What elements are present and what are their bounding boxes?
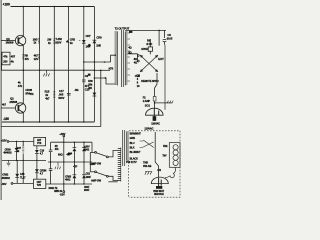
svg-text:4002: 4002 — [65, 179, 71, 182]
wire +15 bus — [9, 140, 34, 142]
wire vertical col4 x69 — [67, 7, 69, 123]
svg-text:4N4002: 4N4002 — [2, 177, 11, 180]
cap C2 left — [49, 162, 53, 184]
resistor R2 on col2 — [38, 39, 40, 44]
wire C8 branch down — [164, 45, 166, 110]
svg-text:CR08: CR08 — [25, 88, 32, 92]
wire bus y62 — [84, 61, 111, 63]
svg-text:4k7: 4k7 — [45, 96, 50, 100]
ground at bus — [43, 70, 49, 76]
wire common return y126.5 — [2, 126, 101, 128]
T1 lead color labels — [130, 133, 142, 161]
capacitor C17 labels between col4 col5 — [58, 89, 64, 100]
svg-text:REMOTE SPKR: REMOTE SPKR — [141, 80, 159, 83]
svg-text:900F: 900F — [84, 189, 90, 192]
svg-text:120VAC: 120VAC — [151, 123, 160, 126]
diode CR8 on col6 — [93, 40, 97, 43]
-15V terminal — [63, 142, 65, 190]
svg-text:7V6: 7V6 — [37, 142, 42, 145]
interlock switch blades — [143, 140, 154, 148]
diode CR7 on col5 — [82, 40, 86, 43]
capacitor C8 — [163, 30, 167, 44]
wire Q1 base — [2, 40, 16, 42]
diode CR62 — [15, 174, 19, 177]
cord coil to terminal block — [165, 167, 175, 177]
wire input hook left — [1, 63, 3, 70]
resistor text col2 lower — [18, 81, 23, 88]
T1 primary winding left — [120, 148, 122, 182]
svg-text:+160: +160 — [3, 3, 10, 7]
wire bus y78 — [94, 78, 116, 84]
svg-text:AMP SW: AMP SW — [91, 178, 102, 182]
ground mid — [55, 162, 61, 169]
svg-text:T2 OUTPUT: T2 OUTPUT — [115, 26, 130, 30]
T2 secondary tap stubs — [128, 33, 131, 81]
diode CR5 on col4 — [66, 40, 69, 42]
switch S1 (amp sw upper) — [90, 151, 94, 153]
svg-text:4002: 4002 — [84, 149, 90, 152]
svg-text:BLACK: BLACK — [130, 157, 139, 160]
svg-text:47k: 47k — [18, 84, 23, 88]
secondary tap labels — [136, 75, 140, 88]
svg-text:BLU: BLU — [130, 142, 135, 145]
verticals tier2 — [74, 162, 84, 175]
svg-text:PRI 117V: PRI 117V — [126, 160, 137, 164]
T2 label — [115, 26, 130, 30]
regulator box U2 — [34, 179, 46, 188]
svg-text:100F: 100F — [86, 176, 92, 179]
svg-text:920V: 920V — [55, 40, 61, 44]
wire vertical col5 x83.8 — [83, 7, 85, 123]
svg-text:Ø.05: Ø.05 — [167, 36, 173, 40]
T2 secondary winding — [124, 32, 126, 86]
speaker selector X switch — [140, 47, 164, 72]
wire to chassis ground — [155, 102, 172, 104]
svg-text:18k: 18k — [88, 82, 93, 86]
left frame border — [0, 0, 2, 200]
svg-text:+15V: +15V — [1, 139, 7, 143]
T2 core — [122, 30, 124, 87]
svg-text:R30: R30 — [88, 79, 93, 83]
svg-text:8Ω: 8Ω — [128, 52, 131, 55]
diode D6 — [82, 175, 86, 178]
second tier verticals — [17, 160, 37, 183]
svg-text:47k: 47k — [25, 57, 30, 61]
svg-text:457: 457 — [11, 54, 16, 58]
label sw-ab — [143, 160, 151, 168]
wire bus to switch feed — [91, 142, 93, 152]
AC outlet dome — [146, 108, 164, 125]
svg-text:90Ω: 90Ω — [58, 154, 63, 157]
svg-text:47F: 47F — [73, 165, 78, 168]
wire into box — [140, 141, 144, 148]
diode C16 — [36, 146, 38, 150]
svg-text:2N508: 2N508 — [9, 100, 17, 104]
label primary — [126, 160, 137, 164]
label CR08 — [25, 88, 32, 95]
chassis ground right — [167, 101, 173, 104]
wire Q2 base — [2, 107, 16, 109]
bus +30 — [51, 141, 92, 143]
svg-text:2 AMP: 2 AMP — [143, 99, 151, 103]
T1 secondary winding right — [126, 132, 128, 161]
svg-text:C17: C17 — [59, 89, 64, 93]
resistor 4R — [55, 145, 60, 151]
svg-text:CR7: CR7 — [86, 34, 92, 38]
resistor R3 on col1 — [22, 55, 24, 60]
resistor R8 — [149, 39, 151, 47]
wire tap to switch — [128, 54, 138, 62]
svg-text:.005: .005 — [58, 93, 63, 97]
diode CR09 — [16, 141, 18, 147]
svg-text:N73: N73 — [109, 66, 114, 70]
terminal block — [169, 143, 180, 168]
label N73 center tap — [109, 66, 114, 70]
transistor Q2 — [15, 103, 25, 113]
fuse F2 — [153, 97, 156, 102]
T2 primary winding — [117, 32, 119, 86]
diode CR5N — [35, 169, 39, 172]
svg-text:44F: 44F — [66, 153, 71, 156]
svg-text:4k7: 4k7 — [34, 53, 39, 57]
svg-text:FM1: FM1 — [163, 145, 168, 148]
svg-text:1.5A: 1.5A — [90, 163, 95, 166]
svg-text:GN: GN — [157, 169, 161, 172]
diode D4 — [83, 142, 85, 147]
ground bus left — [2, 159, 46, 161]
svg-text:1N5: 1N5 — [96, 44, 101, 48]
T2 top tap wire to damping network — [125, 29, 166, 31]
svg-text:4ØB 2k: 4ØB 2k — [54, 190, 63, 193]
svg-text:7V8: 7V8 — [37, 184, 42, 187]
wire vertical col1 x23.3 — [22, 7, 24, 123]
svg-text:BRN/WHT: BRN/WHT — [130, 133, 142, 136]
svg-text:CR8: CR8 — [96, 36, 102, 40]
label C2 — [135, 74, 141, 78]
tap blob 16 — [129, 31, 132, 33]
vertical inside box — [154, 132, 156, 148]
label Q1 — [6, 37, 14, 44]
svg-text:SW-AB: SW-AB — [143, 164, 151, 168]
resistor R15 on col3 lower — [53, 92, 55, 98]
input box (volume control) — [2, 52, 10, 65]
wire T2 top tap link — [111, 55, 116, 62]
resistor R47 — [22, 141, 24, 146]
svg-text:BLK: BLK — [130, 146, 135, 149]
wire bus y70.2 — [2, 69, 95, 71]
label Q2 — [9, 97, 17, 104]
svg-text:TL17: TL17 — [20, 176, 26, 179]
speaker impedance labels — [128, 46, 137, 64]
wire vertical col6 x94.4 — [93, 7, 95, 123]
svg-text:T9V: T9V — [162, 155, 167, 158]
svg-text:SO1: SO1 — [145, 104, 151, 108]
diode D3 — [73, 142, 75, 147]
transistor Q1 — [15, 35, 25, 45]
node -160 label — [3, 117, 9, 121]
AC plug dome — [151, 177, 168, 196]
capacitor C17 plates on col4 — [67, 94, 71, 96]
svg-text:500V: 500V — [58, 96, 64, 100]
-30V terminal — [1, 182, 7, 186]
svg-text:120VAC: 120VAC — [144, 127, 153, 131]
wire switch common down — [155, 73, 157, 109]
wire feedback vertical x100.8 — [100, 70, 102, 126]
diode CR9 on col6 bottom — [93, 93, 97, 96]
wire switch to plug — [155, 148, 158, 178]
capacitor C9 on col5 — [82, 80, 86, 82]
svg-text:47k: 47k — [3, 55, 8, 59]
+160 rail — [11, 6, 95, 8]
svg-text:4N4002: 4N4002 — [3, 152, 12, 155]
svg-text:4Ω: 4Ω — [128, 46, 131, 49]
regulator box U1 — [34, 137, 46, 145]
dashed chassis box — [129, 131, 181, 197]
mid bus — [48, 161, 92, 163]
svg-text:250: 250 — [3, 60, 8, 64]
bottom bus — [46, 183, 92, 185]
wire down from tap junction — [158, 30, 160, 45]
switch S2 (amp sw lower) — [89, 152, 91, 171]
svg-text:4Ω: 4Ω — [134, 61, 137, 64]
svg-text:2N508: 2N508 — [6, 40, 14, 44]
svg-text:-160: -160 — [3, 117, 9, 121]
power transformer T1 — [118, 130, 129, 182]
svg-text:GRN: GRN — [130, 137, 136, 140]
svg-text:Ø 1K: Ø 1K — [146, 42, 152, 46]
wire vertical col2 x39 — [39, 7, 41, 123]
svg-text:BLU/WHT: BLU/WHT — [130, 151, 141, 154]
svg-text:EXT: EXT — [158, 57, 164, 61]
svg-text:4W: 4W — [88, 86, 92, 90]
svg-text:12V: 12V — [34, 57, 39, 61]
+15V terminal — [1, 139, 7, 143]
T1 core — [123, 130, 125, 166]
fuse label — [143, 95, 151, 107]
label GN — [157, 169, 161, 172]
wire bus y70.2 to T2 — [94, 69, 110, 71]
svg-text:-15V: -15V — [59, 193, 65, 197]
diode D5 — [73, 175, 77, 178]
+30V terminal — [59, 132, 65, 136]
ground symbol — [7, 160, 11, 166]
wire vertical col3 x54.5 — [53, 7, 55, 123]
label R1 — [11, 54, 16, 63]
svg-text:-30V: -30V — [1, 182, 7, 186]
junction blob — [88, 74, 91, 76]
svg-text:TNR: TNR — [143, 160, 148, 164]
svg-text:RED BLK: RED BLK — [154, 193, 164, 196]
cap C left — [49, 142, 53, 162]
resistor R5 on col3 with labels — [53, 39, 55, 44]
node +160 label — [3, 3, 10, 7]
svg-text:5R4: 5R4 — [25, 91, 30, 95]
resistor R4 on col2 — [38, 55, 40, 60]
T1 bottom tap — [108, 181, 117, 183]
label R30 — [88, 79, 93, 90]
-160 rail — [2, 121, 94, 123]
svg-text:SPKR: SPKR — [141, 47, 148, 51]
output transformer T2 — [109, 26, 130, 87]
junction dots — [16, 6, 107, 185]
chassis ground bottom — [145, 172, 152, 175]
svg-text:C 27: C 27 — [135, 74, 141, 78]
